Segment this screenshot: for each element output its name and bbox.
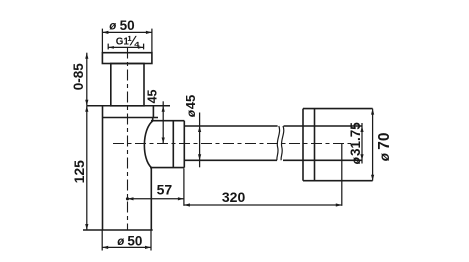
dimension 0-85 text <box>71 63 86 91</box>
bottle top flange bottom line <box>103 117 159 119</box>
outlet nut curved face <box>144 121 153 168</box>
arrow 0-85 top <box>85 53 88 59</box>
svg-text:50: 50 <box>127 234 142 249</box>
bottle top flange upper line with extensions <box>87 105 170 107</box>
bottle top flange left edge <box>102 106 104 118</box>
dimension line ø50 top <box>102 31 151 33</box>
arrow ø50 bottom right <box>145 246 151 249</box>
arrow ø31.75 bottom <box>360 154 363 160</box>
arrow 0-85 bottom <box>85 100 88 106</box>
svg-text:125: 125 <box>71 160 87 184</box>
bottle body right wall upper stub <box>152 118 154 121</box>
svg-text:ø: ø <box>117 236 124 248</box>
arrow ø70 top <box>371 109 374 115</box>
arrow 320 right <box>336 203 342 206</box>
extension line ø50 bottom right <box>150 230 152 251</box>
arrow ø50 top right <box>146 31 152 34</box>
dimension line 45 <box>162 101 164 143</box>
tick right G1 1/4 <box>143 44 145 50</box>
svg-text:ø: ø <box>184 109 198 117</box>
dimension ø31.75 text <box>348 122 363 165</box>
dimension line 125 <box>86 106 88 230</box>
pipe top wall left segment <box>184 125 277 127</box>
dimension 45 text <box>146 89 160 103</box>
arrow G1 left <box>108 46 113 49</box>
extension line right of ø50 top <box>151 29 153 53</box>
dimension line ø45 <box>199 113 201 168</box>
vertical centerline <box>127 48 129 231</box>
svg-text:ø: ø <box>349 156 363 164</box>
arrow ø50 bottom left <box>102 246 108 249</box>
bottle top flange right edge <box>152 106 154 118</box>
pipe break line right <box>281 126 284 160</box>
bottle body left wall <box>102 118 104 231</box>
horizontal centerline <box>113 143 351 145</box>
arrow ø45 top <box>198 126 201 132</box>
arrow G1 right <box>138 46 143 49</box>
dimension line ø70 <box>372 109 374 181</box>
outlet nut bottom line <box>150 167 184 169</box>
extension line left of ø50 top <box>101 29 103 53</box>
svg-text:45: 45 <box>146 89 160 103</box>
dimension line 320 <box>184 204 342 206</box>
arrow 320 left <box>184 203 190 206</box>
arrow ø31.75 top <box>360 126 363 132</box>
pipe bottom wall right segment <box>283 159 362 161</box>
dimension 57 text <box>157 181 173 197</box>
tick left G1 1/4 <box>107 44 109 50</box>
svg-text:ø: ø <box>109 20 116 32</box>
dimension line G1 1/4 <box>108 46 143 48</box>
svg-text:31.75: 31.75 <box>348 122 363 156</box>
arrow 57 left <box>128 197 134 200</box>
dimension line 0-85 <box>86 53 88 106</box>
arrow 125 bottom <box>85 224 88 230</box>
arrow 45 top <box>162 106 165 112</box>
wall flange inner edge <box>314 109 316 181</box>
pipe break line left <box>277 126 280 160</box>
svg-text:320: 320 <box>222 189 246 205</box>
dimension text ø50 top <box>109 18 134 33</box>
svg-text:0-85: 0-85 <box>71 63 86 91</box>
arrow 125 top <box>85 106 88 112</box>
dimension ø70 text <box>376 133 393 162</box>
wall flange bottom line <box>303 180 373 182</box>
dimension line ø31.75 <box>361 123 363 164</box>
extension line 57/320 shared <box>183 169 185 206</box>
top flange nut <box>102 53 151 64</box>
bottle body right wall lower <box>150 168 152 230</box>
arrow 57 right <box>178 197 184 200</box>
svg-text:45: 45 <box>183 95 198 109</box>
dimension ø50 bottom text <box>117 234 142 249</box>
junction dot 57 left <box>126 197 129 200</box>
svg-text:70: 70 <box>376 133 393 150</box>
arrow 45 bottom <box>162 138 165 144</box>
svg-text:57: 57 <box>157 181 173 197</box>
wall flange top line <box>303 108 373 110</box>
extension line 320 right <box>341 144 343 206</box>
arrow ø45 bottom <box>198 154 201 160</box>
extension line ø50 bottom left <box>101 230 103 251</box>
outlet nut inner edge <box>172 121 174 168</box>
wall flange outer left edge <box>302 109 304 181</box>
svg-text:50: 50 <box>120 18 135 33</box>
pipe top wall right segment <box>284 125 362 127</box>
riser tube <box>111 64 144 106</box>
bottle bottom line extended left <box>83 229 153 231</box>
dimension 320 text <box>222 189 246 205</box>
outlet nut right edge <box>183 121 185 168</box>
arrow ø70 bottom <box>371 175 374 181</box>
svg-text:ø: ø <box>377 152 392 161</box>
arrow ø50 top left <box>102 31 108 34</box>
dimension line 57 <box>128 198 184 200</box>
dimension ø45 text <box>183 95 198 117</box>
outlet nut top line <box>151 120 184 122</box>
dimension line ø50 bottom <box>102 246 151 248</box>
pipe bottom wall left segment <box>184 159 277 161</box>
dimension 125 text <box>71 160 87 184</box>
thread label G1 1/4 <box>116 34 140 49</box>
